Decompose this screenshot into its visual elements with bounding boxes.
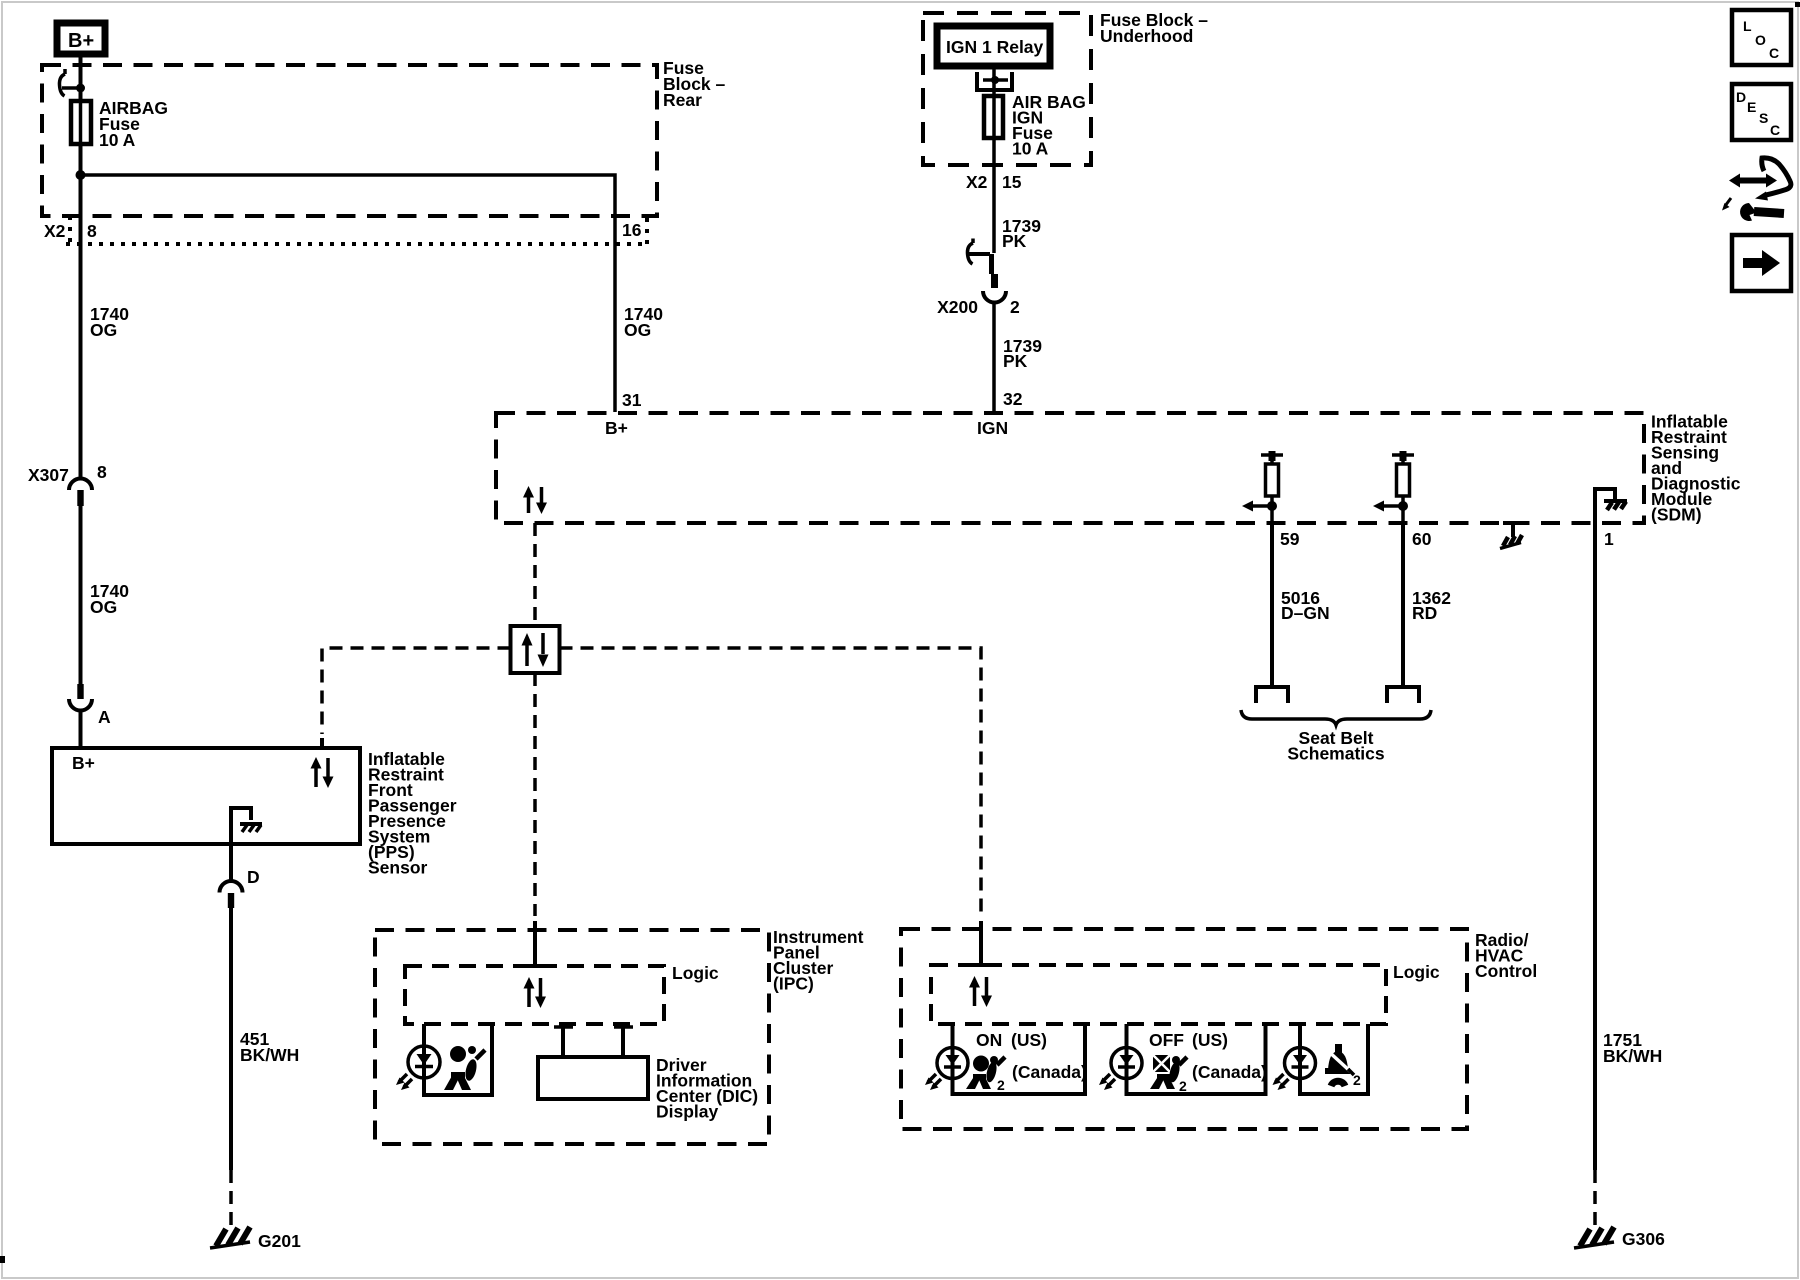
wire serial data to radio — [560, 648, 982, 916]
relay output clip — [977, 72, 1012, 90]
svg-text:X2: X2 — [44, 221, 66, 241]
svg-text:BK/WH: BK/WH — [1603, 1046, 1662, 1066]
svg-text:Schematics: Schematics — [1287, 744, 1385, 764]
svg-text:C: C — [1769, 45, 1779, 61]
svg-text:E: E — [1747, 99, 1756, 115]
seat belt terminal 60 — [1387, 687, 1419, 703]
wire serial data to PPS — [322, 648, 511, 734]
fuse F1 AIRBAG Fuse 10A — [71, 98, 168, 150]
resistor R59 (seat belt switch feed) — [1242, 451, 1283, 523]
svg-text:ON: ON — [976, 1030, 1002, 1050]
svg-text:16: 16 — [622, 220, 642, 240]
lamp LED chime — [1273, 1047, 1316, 1090]
connector D — [220, 867, 260, 908]
svg-text:10 A: 10 A — [1012, 139, 1049, 159]
svg-text:2: 2 — [997, 1077, 1005, 1093]
svg-text:G201: G201 — [258, 1231, 301, 1251]
svg-text:8: 8 — [87, 221, 97, 241]
svg-text:IGN: IGN — [977, 418, 1008, 438]
wire 1362 RD — [1401, 523, 1405, 687]
fuse block - underhood dashed enclosure — [923, 13, 1091, 165]
wire A to PPS box — [79, 710, 83, 748]
svg-text:(Canada): (Canada) — [1012, 1062, 1087, 1082]
svg-text:B+: B+ — [605, 418, 628, 438]
junction dot on B+ branch — [76, 170, 86, 180]
svg-text:Display: Display — [656, 1102, 719, 1122]
lamp LED airbag indicator (IPC) — [396, 1046, 440, 1090]
wire serial data from SDM — [533, 523, 537, 624]
svg-text:S: S — [1759, 110, 1768, 126]
internal ground to pin 1 — [1595, 489, 1627, 523]
svg-text:2: 2 — [1010, 297, 1020, 317]
wire relay to fuse — [992, 66, 996, 96]
module PPS sensor box — [52, 748, 360, 844]
svg-text:(Canada): (Canada) — [1192, 1062, 1267, 1082]
svg-text:A: A — [98, 707, 111, 727]
svg-text:(US): (US) — [1192, 1030, 1228, 1050]
icon airbag person (IPC) — [444, 1046, 485, 1090]
svg-text:2: 2 — [1179, 1078, 1187, 1094]
module SDM dashed enclosure — [496, 413, 1644, 523]
svg-text:Logic: Logic — [672, 963, 719, 983]
wire PPS to connector D — [229, 844, 233, 881]
in-line connector X200 pin 2 — [937, 239, 1020, 318]
svg-text:2: 2 — [1353, 1072, 1361, 1088]
svg-text:B+: B+ — [72, 753, 95, 773]
svg-text:X2: X2 — [966, 172, 988, 192]
svg-text:D: D — [247, 867, 260, 887]
svg-text:X200: X200 — [937, 297, 978, 317]
wire fuse to X200 — [992, 138, 996, 253]
chime indicator sub-box — [1300, 1024, 1368, 1094]
svg-text:15: 15 — [1002, 172, 1022, 192]
icon airbag person 2 (ON) — [966, 1056, 1005, 1094]
svg-text:D: D — [1736, 89, 1746, 105]
serial data arrows in IPC logic — [524, 966, 547, 1008]
ground G201 — [210, 1227, 301, 1251]
ground G306 — [1574, 1227, 1665, 1249]
serial data arrows in SDM — [523, 486, 547, 514]
wire X200 to SDM pin 32 — [992, 302, 996, 412]
icon forward arrow box — [1732, 235, 1791, 291]
logic block (radio) — [931, 965, 1386, 1024]
icon chime bell 2 — [1325, 1044, 1361, 1088]
svg-text:C: C — [1770, 122, 1780, 138]
fuse F2 AIR BAG IGN Fuse 10A — [984, 92, 1086, 159]
svg-text:B+: B+ — [68, 30, 94, 52]
seat belt terminal 59 — [1256, 687, 1288, 703]
svg-text:(SDM): (SDM) — [1651, 505, 1702, 525]
svg-text:1: 1 — [1604, 529, 1614, 549]
svg-text:G306: G306 — [1622, 1229, 1665, 1249]
icon power distribution (arrow + wrench) — [1722, 158, 1791, 221]
svg-text:10 A: 10 A — [99, 130, 136, 150]
svg-text:OG: OG — [90, 597, 117, 617]
svg-text:RD: RD — [1412, 603, 1437, 623]
svg-text:60: 60 — [1412, 529, 1432, 549]
svg-text:PK: PK — [1003, 351, 1028, 371]
wire 451 BK/WH down to G201 — [229, 908, 233, 1170]
page artifact marks — [1795, 2, 1800, 7]
svg-text:OG: OG — [90, 320, 117, 340]
svg-text:IGN 1 Relay: IGN 1 Relay — [946, 37, 1044, 57]
connector X307 pin 8 — [28, 462, 107, 506]
svg-text:Logic: Logic — [1393, 962, 1440, 982]
fuse block - rear dashed enclosure — [42, 65, 657, 216]
resistor R60 (seat belt switch feed) — [1373, 451, 1414, 523]
svg-text:59: 59 — [1280, 529, 1300, 549]
icon crossed airbag person 2 (OFF) — [1150, 1055, 1187, 1094]
OFF indicator sub-box — [1127, 1024, 1266, 1094]
svg-text:BK/WH: BK/WH — [240, 1045, 299, 1065]
ON indicator sub-box — [953, 1024, 1086, 1094]
module IPC dashed enclosure — [375, 930, 769, 1144]
svg-text:X307: X307 — [28, 465, 69, 485]
wire B+ feed down to fuse — [79, 57, 83, 478]
connector A into PPS sensor — [69, 684, 111, 727]
logic block (IPC) — [405, 966, 664, 1024]
serial data arrows in radio logic — [969, 965, 992, 1007]
svg-text:(US): (US) — [1011, 1030, 1047, 1050]
DIC display — [538, 1025, 758, 1122]
svg-text:31: 31 — [622, 390, 642, 410]
serial data arrows in PPS — [311, 757, 334, 788]
svg-text:O: O — [1755, 32, 1766, 48]
wire 5016 D-GN — [1270, 523, 1274, 687]
ground symbol on SDM case edge — [1500, 523, 1524, 549]
connector X2 strip (rear fuse block) — [44, 216, 647, 244]
node B+ (battery positive terminal box) — [57, 23, 105, 54]
icon LOC box — [1732, 10, 1791, 65]
svg-text:Rear: Rear — [663, 90, 702, 110]
svg-text:8: 8 — [97, 462, 107, 482]
fuse block terminal clip — [59, 69, 85, 96]
wire branch to pin 16 — [81, 175, 616, 412]
wire X307 to A — [79, 506, 83, 684]
svg-text:L: L — [1743, 18, 1752, 34]
lamp LED passenger airbag ON — [925, 1047, 968, 1090]
svg-text:OFF: OFF — [1149, 1030, 1184, 1050]
brace seat belt schematics — [1241, 710, 1431, 725]
airbag indicator sub-box (IPC) — [424, 1024, 492, 1095]
relay IGN 1 Relay — [937, 26, 1050, 66]
wire serial data to IPC — [533, 673, 537, 916]
svg-text:32: 32 — [1003, 389, 1023, 409]
icon DESC box — [1732, 84, 1791, 140]
svg-text:Underhood: Underhood — [1100, 26, 1193, 46]
svg-text:Control: Control — [1475, 961, 1537, 981]
junction splice box (serial data) — [511, 626, 560, 673]
wire 1751 BK/WH to G306 — [1593, 523, 1597, 1170]
internal ground of PPS — [231, 808, 262, 844]
module radio/HVAC dashed enclosure — [901, 929, 1467, 1129]
svg-text:(IPC): (IPC) — [773, 974, 814, 994]
svg-text:PK: PK — [1002, 231, 1027, 251]
svg-text:OG: OG — [624, 320, 651, 340]
svg-text:Sensor: Sensor — [368, 858, 428, 878]
lamp LED passenger airbag OFF — [1099, 1047, 1142, 1090]
svg-text:D–GN: D–GN — [1281, 603, 1330, 623]
